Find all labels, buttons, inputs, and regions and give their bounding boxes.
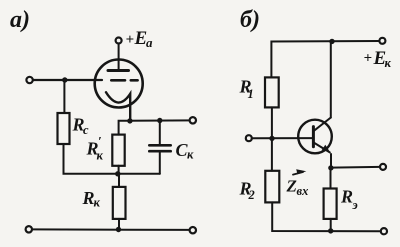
svg-text:c: c bbox=[83, 123, 89, 137]
transistor emitter stroke with arrow bbox=[313, 142, 329, 152]
capacitor Ck bottom lead bbox=[159, 151, 161, 174]
tube anode bar bbox=[108, 69, 129, 72]
svg-text:вх: вх bbox=[297, 184, 309, 198]
label a) bbox=[10, 7, 30, 33]
wire emitter output bbox=[331, 166, 380, 169]
input terminal b bbox=[246, 135, 252, 141]
svg-text:б): б) bbox=[240, 7, 260, 33]
wire grid lead bbox=[33, 79, 102, 81]
wire cathode node row bbox=[119, 120, 193, 134]
resistor Rk bbox=[113, 187, 126, 219]
transistor base bar bbox=[312, 127, 315, 147]
wire R1 to R2 bbox=[271, 107, 273, 170]
label Re bbox=[340, 187, 358, 213]
svg-text:э: э bbox=[352, 198, 358, 212]
wire R'k bottom bbox=[118, 166, 120, 174]
tube V1 envelope bbox=[95, 60, 143, 108]
wire top rail b bbox=[271, 41, 379, 77]
svg-text:a: a bbox=[146, 35, 153, 50]
svg-text:Z: Z bbox=[286, 177, 297, 196]
wire Re bottom bbox=[330, 219, 332, 231]
svg-text:′: ′ bbox=[98, 134, 102, 149]
input terminal a bbox=[26, 77, 32, 83]
label R'k bbox=[86, 134, 104, 163]
svg-text:1: 1 bbox=[248, 87, 254, 101]
node bottom rail junction a bbox=[116, 227, 121, 232]
wire anode lead bbox=[118, 44, 120, 71]
resistor R1 bbox=[265, 77, 279, 107]
resistor Re bbox=[324, 189, 337, 219]
svg-text:a): a) bbox=[10, 7, 30, 33]
svg-text:2: 2 bbox=[248, 188, 255, 202]
wire collector to rail bbox=[330, 42, 332, 118]
capacitor Ck top lead bbox=[159, 121, 161, 146]
wire to Rc bbox=[63, 80, 65, 113]
svg-text:+: + bbox=[126, 32, 135, 48]
svg-text:к: к bbox=[385, 56, 392, 70]
wire base lead bbox=[252, 137, 313, 139]
svg-text:к: к bbox=[97, 149, 104, 163]
wire emitter node to Re bbox=[330, 168, 332, 189]
transistor Q1 circle bbox=[298, 120, 332, 154]
node grid junction bbox=[62, 77, 67, 82]
tube grid dashes bbox=[111, 79, 125, 82]
bottom left terminal a bbox=[26, 226, 32, 232]
output terminal a bbox=[190, 117, 196, 123]
bottom right terminal a bbox=[190, 227, 196, 233]
label +Ea bbox=[126, 28, 154, 50]
node emitter junction bbox=[328, 165, 333, 170]
wire Rc bottom to node row bbox=[64, 144, 160, 174]
svg-text:+: + bbox=[364, 51, 373, 67]
capacitor Ck plates bbox=[149, 144, 170, 147]
resistor R'k bbox=[112, 135, 124, 166]
wire bottom rail a bbox=[32, 228, 190, 231]
svg-text:к: к bbox=[187, 148, 194, 162]
wire R2 to bottom rail b bbox=[272, 202, 381, 231]
label Ck bbox=[176, 140, 195, 162]
label Rc bbox=[72, 115, 90, 138]
terminal +Ea bbox=[116, 38, 122, 44]
transistor collector stroke bbox=[313, 118, 330, 132]
wire Rk bottom bbox=[118, 219, 120, 230]
node collector rail junction bbox=[329, 39, 334, 44]
bottom right terminal b bbox=[381, 228, 387, 234]
svg-text:R: R bbox=[340, 187, 353, 207]
label b) bbox=[240, 7, 260, 33]
label Zbx with arrow bbox=[286, 177, 309, 199]
top right terminal b bbox=[379, 38, 385, 44]
node Re bottom junction bbox=[328, 228, 333, 233]
node cathode junction bbox=[127, 118, 132, 123]
wire node row2 to Rk bbox=[118, 174, 120, 187]
resistor R2 bbox=[265, 171, 279, 203]
node capacitor top junction bbox=[157, 118, 162, 123]
label R2 bbox=[239, 179, 255, 203]
node row2 junction bbox=[115, 171, 120, 176]
wire emitter down bbox=[330, 154, 332, 168]
svg-text:к: к bbox=[94, 196, 101, 210]
output terminal b bbox=[380, 164, 386, 170]
label +Ek bbox=[364, 48, 392, 70]
label R1 bbox=[239, 77, 254, 102]
label Rk bbox=[82, 188, 101, 210]
resistor Rc bbox=[58, 113, 70, 144]
node base branch junction bbox=[269, 136, 274, 141]
tube cathode bbox=[106, 92, 130, 121]
